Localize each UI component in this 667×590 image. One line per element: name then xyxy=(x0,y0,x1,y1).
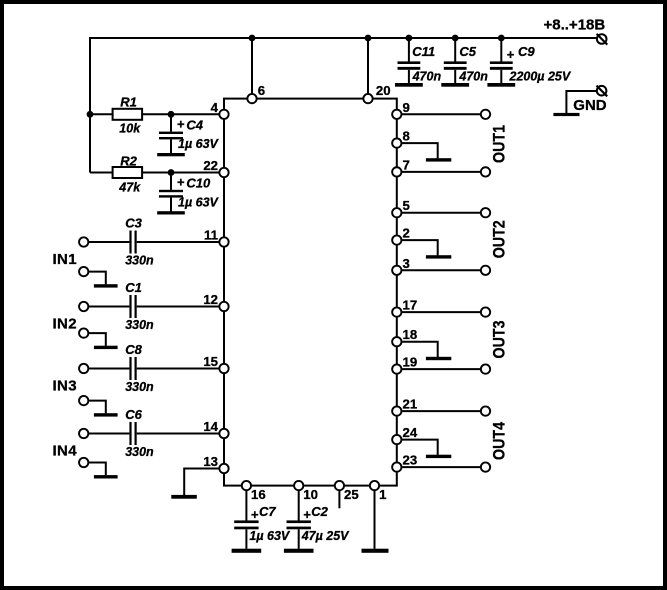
terminal output pin5 xyxy=(481,208,490,217)
pin 9 xyxy=(392,110,401,119)
ground pin2 bar xyxy=(426,255,451,258)
wire pin13 to ground xyxy=(184,469,219,496)
svg-text:7: 7 xyxy=(403,157,410,172)
terminal +8..+18B screw xyxy=(597,34,607,44)
capacitor C7 1µ 63V electrolytic xyxy=(245,491,247,521)
ground below C5 xyxy=(441,83,469,87)
terminal output pin21 xyxy=(481,406,490,415)
svg-text:20: 20 xyxy=(376,83,391,98)
svg-text:2: 2 xyxy=(403,226,410,241)
svg-text:1µ 63V: 1µ 63V xyxy=(178,137,220,151)
wire IN3 ground lead xyxy=(89,401,106,414)
pin 4 xyxy=(219,110,228,119)
svg-text:GND: GND xyxy=(573,97,607,114)
ground IN1 bar xyxy=(94,284,118,287)
svg-text:+: + xyxy=(303,507,311,522)
pin 8 xyxy=(392,138,401,147)
svg-text:13: 13 xyxy=(203,454,218,469)
pin 21 xyxy=(392,406,401,415)
ground pin1 bar xyxy=(362,549,389,553)
pin 13 xyxy=(219,464,228,473)
ground below C2 xyxy=(284,549,314,553)
terminal IN4 ground xyxy=(79,458,88,467)
ground pin8 bar xyxy=(426,158,451,161)
terminal IN2 ground xyxy=(79,328,88,337)
ground IN3 bar xyxy=(94,413,118,416)
terminal GND screw xyxy=(597,86,607,96)
wire pin24 to ground xyxy=(402,440,438,455)
pin 5 xyxy=(392,208,401,217)
capacitor C1 330n xyxy=(129,295,131,318)
svg-text:470n: 470n xyxy=(458,70,488,84)
svg-text:11: 11 xyxy=(204,228,218,243)
capacitor C3 330n xyxy=(129,231,131,254)
pin 14 xyxy=(219,429,228,438)
svg-text:IN4: IN4 xyxy=(53,443,78,460)
wire IN1 to C3 xyxy=(89,241,129,243)
svg-text:1µ 63V: 1µ 63V xyxy=(178,195,220,209)
ground below C4 xyxy=(157,153,185,156)
svg-text:8: 8 xyxy=(403,129,410,144)
terminal output pin23 xyxy=(481,462,490,471)
pin 6 xyxy=(247,94,256,103)
ground below C7 xyxy=(232,549,262,553)
node junction rail/C9 xyxy=(498,35,505,42)
capacitor C8 330n xyxy=(129,357,131,380)
svg-text:+8..+18B: +8..+18B xyxy=(544,17,606,34)
svg-text:10k: 10k xyxy=(119,122,141,136)
svg-text:R2: R2 xyxy=(120,153,137,168)
ground below C9 xyxy=(487,83,515,87)
svg-text:+: + xyxy=(507,47,515,62)
wire pin8 to ground xyxy=(402,143,438,158)
svg-text:1µ 63V: 1µ 63V xyxy=(249,529,291,543)
svg-text:330n: 330n xyxy=(125,318,154,332)
svg-text:C11: C11 xyxy=(412,44,435,59)
wire IN1 ground lead xyxy=(89,272,106,285)
wire pin19 to output terminal xyxy=(402,368,480,370)
pin 24 xyxy=(392,435,401,444)
svg-text:9: 9 xyxy=(403,100,410,115)
resistor R2 47k xyxy=(90,172,113,174)
node junction rail/C11 xyxy=(406,35,413,42)
svg-text:47k: 47k xyxy=(118,180,141,194)
pin 2 xyxy=(392,235,401,244)
wire IN2 ground lead xyxy=(89,333,106,346)
pin 17 xyxy=(392,307,401,316)
wire pin7 to output terminal xyxy=(402,171,480,173)
svg-text:OUT1: OUT1 xyxy=(490,125,509,163)
node junction C10 xyxy=(168,169,175,176)
capacitor C4 1µ 63V electrolytic xyxy=(170,114,172,131)
pin 15 xyxy=(219,364,228,373)
wire pin25 stub xyxy=(338,491,340,508)
wire pin17 to output terminal xyxy=(402,311,480,313)
ground pin24 bar xyxy=(426,455,451,458)
capacitor C2 47µ 25V electrolytic xyxy=(298,491,300,521)
node junction C4 xyxy=(168,111,175,118)
ground pin13 bar xyxy=(171,495,197,499)
wire IN4 to C6 xyxy=(89,433,129,435)
pin 3 xyxy=(392,266,401,275)
svg-text:18: 18 xyxy=(403,327,418,342)
wire C6 to pin 14 xyxy=(137,433,219,435)
svg-text:C5: C5 xyxy=(459,44,476,59)
svg-text:17: 17 xyxy=(403,298,418,313)
wire GND terminal to ground xyxy=(566,91,596,113)
svg-text:C10: C10 xyxy=(186,176,211,191)
svg-text:1: 1 xyxy=(379,487,386,502)
svg-text:2200µ 25V: 2200µ 25V xyxy=(509,70,572,84)
wire pin1 to ground xyxy=(374,491,376,549)
svg-text:C9: C9 xyxy=(518,44,535,59)
svg-text:OUT4: OUT4 xyxy=(490,422,509,460)
pin 19 xyxy=(392,364,401,373)
terminal IN3 ground xyxy=(79,396,88,405)
capacitor C11 470n xyxy=(408,38,410,62)
wire pin2 to ground xyxy=(402,240,438,255)
ground below C11 xyxy=(395,83,423,87)
svg-text:C1: C1 xyxy=(125,280,142,295)
ground IN2 bar xyxy=(94,346,118,349)
wire IN4 ground lead xyxy=(89,463,106,476)
svg-text:21: 21 xyxy=(403,397,418,412)
svg-text:C8: C8 xyxy=(125,342,142,357)
wire pin5 to output terminal xyxy=(402,212,480,214)
svg-text:6: 6 xyxy=(258,83,265,98)
svg-text:C6: C6 xyxy=(125,407,142,422)
pin 23 xyxy=(392,462,401,471)
svg-text:330n: 330n xyxy=(125,254,154,268)
svg-text:OUT2: OUT2 xyxy=(490,220,509,258)
svg-text:22: 22 xyxy=(203,158,218,173)
svg-text:IN2: IN2 xyxy=(53,316,77,333)
wire IN2 to C1 xyxy=(89,306,129,308)
wire pin9 to output terminal xyxy=(402,113,480,115)
ground below C10 xyxy=(157,211,185,214)
pin 10 xyxy=(294,481,303,490)
svg-text:C3: C3 xyxy=(125,216,142,231)
svg-text:24: 24 xyxy=(403,425,418,440)
svg-text:23: 23 xyxy=(403,453,418,468)
svg-text:12: 12 xyxy=(203,292,218,307)
svg-text:IN3: IN3 xyxy=(53,378,77,395)
svg-text:19: 19 xyxy=(403,355,418,370)
terminal output pin19 xyxy=(481,364,490,373)
capacitor C10 1µ 63V electrolytic xyxy=(170,173,172,190)
pin 16 xyxy=(242,481,251,490)
wire C1 to pin 12 xyxy=(137,306,219,308)
terminal output pin7 xyxy=(481,167,490,176)
terminal output pin9 xyxy=(481,110,490,119)
pin 1 xyxy=(370,481,379,490)
wire pin21 to output terminal xyxy=(402,410,480,412)
wire top supply rail xyxy=(90,37,597,39)
terminal IN3 input xyxy=(79,364,88,373)
pin 11 xyxy=(219,237,228,246)
capacitor C9 2200u 25V electrolytic xyxy=(500,38,502,62)
node junction rail/C5 xyxy=(452,35,459,42)
svg-text:25: 25 xyxy=(344,487,359,502)
svg-text:+: + xyxy=(177,116,185,131)
pin 25 xyxy=(335,481,344,490)
svg-text:R1: R1 xyxy=(120,95,137,110)
capacitor C6 330n xyxy=(129,422,131,445)
resistor R1 10k xyxy=(90,113,113,115)
terminal output pin17 xyxy=(481,307,490,316)
svg-text:470n: 470n xyxy=(412,70,442,84)
wire pin3 to output terminal xyxy=(402,269,480,271)
pin 7 xyxy=(392,167,401,176)
capacitor C5 470n xyxy=(454,38,456,62)
wire riser pin20 xyxy=(367,38,369,94)
svg-text:C4: C4 xyxy=(186,118,203,133)
ground GND bar xyxy=(553,113,579,116)
node junction rail/R1 xyxy=(87,111,94,118)
svg-text:5: 5 xyxy=(403,198,410,213)
ground IN4 bar xyxy=(94,475,118,478)
ground pin18 bar xyxy=(426,357,451,360)
node junction rail/pin6 xyxy=(249,35,256,42)
svg-text:330n: 330n xyxy=(125,445,154,459)
wire left rail vertical xyxy=(89,37,91,173)
pin 18 xyxy=(392,337,401,346)
svg-text:330n: 330n xyxy=(125,380,154,394)
svg-text:47µ 25V: 47µ 25V xyxy=(301,529,350,543)
svg-text:14: 14 xyxy=(203,419,218,434)
wire IN3 to C8 xyxy=(89,368,129,370)
wire C8 to pin 15 xyxy=(137,368,219,370)
svg-text:+: + xyxy=(251,507,259,522)
pin 22 xyxy=(219,168,228,177)
svg-text:OUT3: OUT3 xyxy=(490,320,509,358)
svg-text:+: + xyxy=(177,175,185,190)
wire pin18 to ground xyxy=(402,342,438,357)
svg-text:15: 15 xyxy=(203,354,218,369)
svg-text:C7: C7 xyxy=(259,504,276,519)
terminal IN1 ground xyxy=(79,267,88,276)
svg-text:10: 10 xyxy=(303,487,318,502)
node junction rail/pin20 xyxy=(365,35,372,42)
svg-text:4: 4 xyxy=(211,100,219,115)
svg-text:3: 3 xyxy=(403,256,410,271)
terminal output pin3 xyxy=(481,266,490,275)
svg-text:C2: C2 xyxy=(311,504,328,519)
terminal IN4 input xyxy=(79,429,88,438)
wire pin23 to output terminal xyxy=(402,466,480,468)
terminal IN1 input xyxy=(79,237,88,246)
wire C3 to pin 11 xyxy=(137,241,219,243)
svg-text:IN1: IN1 xyxy=(53,251,77,268)
pin 12 xyxy=(219,302,228,311)
IC body outline xyxy=(224,99,397,486)
pin 20 xyxy=(363,94,372,103)
svg-text:16: 16 xyxy=(251,487,266,502)
wire riser pin6 xyxy=(251,38,253,94)
terminal IN2 input xyxy=(79,302,88,311)
